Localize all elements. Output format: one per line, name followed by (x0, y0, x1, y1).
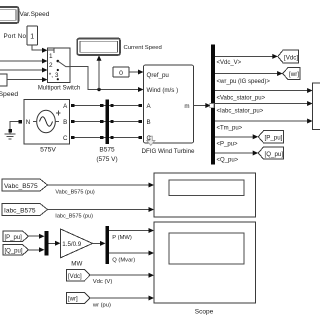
svg-text:P (MW): P (MW) (112, 235, 132, 241)
DFIG Wind Turbine block (142, 65, 196, 155)
svg-text:[wr]: [wr] (289, 71, 299, 78)
svg-text:Port No: Port No (4, 33, 27, 40)
from wr (67, 293, 91, 304)
svg-text:Vdc (V): Vdc (V) (93, 279, 113, 285)
wire input3 (7, 79, 43, 81)
svg-text:C: C (147, 135, 152, 142)
svg-text:B: B (147, 119, 151, 126)
svg-text:[Vdc]: [Vdc] (284, 54, 298, 61)
pads phase B (71, 120, 74, 123)
svg-text:Q (Mvar): Q (Mvar) (112, 257, 135, 263)
demux (106, 226, 109, 264)
port pad N (19, 120, 22, 123)
svg-text:1: 1 (30, 33, 34, 40)
svg-text:DFIG Wind Turbine: DFIG Wind Turbine (142, 148, 196, 155)
wire Q_pu (215, 152, 254, 154)
svg-text:Var.Speed: Var.Speed (20, 11, 50, 18)
svg-text:[Vdc]: [Vdc] (68, 274, 82, 280)
svg-text:Speed: Speed (0, 91, 18, 98)
from Vdc (67, 270, 91, 282)
mux (45, 231, 49, 256)
svg-text:Wind (m/s ): Wind (m/s ) (147, 87, 179, 94)
port marker m (210, 104, 214, 108)
svg-text:<Q_pu>: <Q_pu> (217, 158, 239, 164)
from Q_pu (3, 245, 29, 256)
svg-text:1.5/0.9: 1.5/0.9 (62, 241, 81, 248)
from P_pu (3, 231, 29, 242)
svg-text:<wr_pu (IG speed)>: <wr_pu (IG speed)> (217, 79, 271, 85)
svg-text:N: N (26, 119, 30, 126)
svg-text:[wr]: [wr] (68, 297, 78, 303)
selector block right (313, 83, 320, 130)
svg-text:0: 0 (119, 70, 123, 77)
goto Q_pu (258, 147, 283, 159)
wire phase A (74, 105, 139, 107)
wire Vdc_V (215, 55, 273, 57)
ground (5, 129, 16, 139)
multiport switch (38, 48, 80, 92)
svg-text:<P_pu>: <P_pu> (217, 142, 239, 148)
wire Q Mvar (109, 252, 149, 254)
svg-text:1: 1 (49, 53, 53, 60)
source 575V (24, 100, 70, 154)
svg-text:Vabc_B575: Vabc_B575 (4, 183, 38, 190)
pads phase C (71, 136, 74, 139)
constant 0 (113, 67, 129, 77)
display Var.Speed (0, 7, 50, 23)
wire gain to demux (93, 242, 102, 244)
constant Port No (4, 26, 38, 45)
svg-text:*, 3: *, 3 (49, 72, 59, 79)
wire wr to scope (90, 297, 149, 299)
svg-text:B: B (63, 119, 67, 126)
wire m output (194, 105, 207, 107)
wire switch output to Wind input (70, 67, 139, 90)
wire input1 (0, 60, 43, 62)
block Speed (0, 74, 18, 98)
wire Iabc_stator (215, 103, 308, 105)
svg-text:<Vdc_V>: <Vdc_V> (217, 60, 242, 66)
wire Vdc to scope (90, 274, 149, 276)
wire Tm_pu (215, 120, 308, 122)
svg-text:[P_pu]: [P_pu] (5, 235, 23, 241)
pads phase A (71, 104, 74, 107)
svg-text:Scope: Scope (195, 309, 214, 316)
svg-text:Current Speed: Current Speed (124, 45, 162, 51)
wire input2 (0, 69, 43, 71)
bus B575 (96, 100, 117, 164)
goto P_pu (258, 131, 283, 143)
wire P_pu (215, 136, 254, 138)
svg-text:wr (pu): wr (pu) (92, 303, 111, 309)
svg-text:m: m (184, 103, 189, 110)
svg-text:<Iabc_stator_pu>: <Iabc_stator_pu> (217, 109, 264, 115)
svg-text:Vabc_B575 (pu): Vabc_B575 (pu) (55, 190, 95, 196)
wire Iabc to scope (48, 209, 150, 211)
scope lower (154, 222, 256, 316)
svg-text:<Vabc_stator_pu>: <Vabc_stator_pu> (217, 96, 266, 102)
goto Vdc (278, 50, 299, 63)
bus selector (211, 45, 215, 165)
wire Q_pu to mux (29, 249, 41, 251)
svg-text:(575 V): (575 V) (96, 156, 117, 163)
wire P MW (109, 230, 149, 232)
svg-text:Multiport Switch: Multiport Switch (38, 86, 80, 92)
wire wr_pu (215, 73, 278, 75)
svg-text:[Q_pu]: [Q_pu] (265, 151, 284, 158)
wire Vabc to scope (48, 184, 150, 186)
svg-text:575V: 575V (40, 147, 56, 154)
wire mux to gain (49, 242, 57, 244)
goto wr (283, 68, 301, 80)
svg-text:[P_pu]: [P_pu] (265, 135, 283, 142)
wire phase C (74, 137, 139, 139)
scope upper (154, 173, 256, 217)
svg-text:2: 2 (49, 62, 53, 69)
wire N to ground (10, 122, 19, 134)
svg-text:B575: B575 (99, 147, 115, 154)
svg-text:MW: MW (71, 260, 82, 267)
wire phase B (74, 121, 139, 123)
wire Vabc_stator (215, 90, 308, 92)
svg-text:Iabc_B575 (pu): Iabc_B575 (pu) (55, 213, 93, 219)
display Current Speed (77, 39, 161, 56)
junction node (97, 88, 100, 91)
wire Qref (129, 71, 139, 73)
svg-text:Qref_pu: Qref_pu (147, 72, 170, 79)
wire P_pu to mux (29, 235, 41, 237)
wire select (32, 45, 43, 50)
gain 1.5/0.9 (61, 229, 93, 267)
from Vabc_B575 (2, 179, 48, 191)
svg-text:Iabc_B575: Iabc_B575 (4, 208, 36, 215)
svg-text:[Q_pu]: [Q_pu] (5, 248, 23, 254)
from Iabc_B575 (2, 204, 48, 216)
svg-text:<Tm_pu>: <Tm_pu> (217, 126, 243, 132)
wire branch up to Current Speed (98, 60, 100, 90)
svg-text:C: C (63, 135, 68, 142)
